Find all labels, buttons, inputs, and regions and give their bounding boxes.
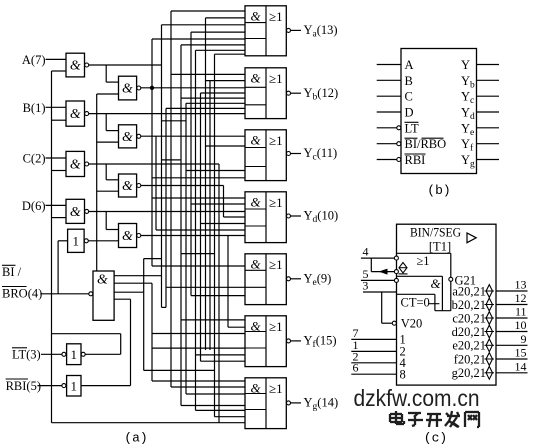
- wire tee down to G2B: [105, 114, 107, 131]
- AND-OR-INVERT gate Gf: [245, 316, 286, 367]
- wire bus vertical x=191: [190, 32, 192, 296]
- arrowhead left (RBO direction): [379, 269, 388, 275]
- wire input Gd y=230: [156, 229, 245, 231]
- svg-text:≥1: ≥1: [269, 381, 283, 396]
- wire input Gf y=348.1: [152, 347, 245, 349]
- bubble LT in: [62, 352, 66, 356]
- wire RBO stair 4: [114, 298, 130, 300]
- buffer 1 (RBI): [67, 376, 81, 397]
- wire G1B out to gate Gb: [89, 113, 245, 115]
- NAND gate G2B: [119, 125, 137, 148]
- svg-text:BI /: BI /: [2, 265, 22, 279]
- pin A: [377, 64, 401, 66]
- wire G1C out: [89, 163, 219, 165]
- wire G1A out: [89, 64, 162, 66]
- pin Yb out: [477, 79, 500, 81]
- wire input Gf y=327.2: [228, 326, 245, 328]
- svg-text:≥1: ≥1: [269, 71, 283, 86]
- wire bottom rail to G-g input: [52, 422, 246, 424]
- svg-text:&: &: [122, 130, 133, 145]
- svg-text:LT: LT: [405, 121, 419, 135]
- amplifier triangle: [467, 233, 476, 243]
- wire to V20: [382, 322, 393, 324]
- wire bus vertical x=186: [185, 103, 187, 394]
- wire bus vertical x=205.5: [205, 18, 207, 350]
- wire stub to G2C pin2: [97, 190, 119, 192]
- wire output Gg: [291, 402, 301, 404]
- wire bus vertical x=200.5: [200, 93, 202, 361]
- wire input Gg y=405.5: [181, 405, 245, 407]
- AND-OR-INVERT gate Ga: [245, 6, 286, 56]
- wire RBO stair 3: [114, 291, 144, 293]
- svg-text:b20,21: b20,21: [452, 298, 486, 312]
- NAND gate G1C: [66, 151, 85, 176]
- svg-text:D: D: [405, 106, 414, 120]
- svg-text:B: B: [405, 74, 413, 88]
- pin 13 wire: [496, 290, 528, 292]
- pin Ya out: [477, 64, 500, 66]
- pin 10 wire: [496, 331, 528, 333]
- svg-text:14: 14: [515, 359, 527, 373]
- inner box CT top: [397, 293, 435, 295]
- wire input Gd y=204: [191, 203, 245, 205]
- wire bus vertical x=171: [170, 11, 172, 387]
- pin 6 wire: [351, 373, 396, 375]
- wire RBI-net vertical: [130, 299, 132, 385]
- wire stub to G1C pin2: [52, 170, 67, 172]
- inner box AND top: [397, 275, 443, 277]
- wire BI branch vertical: [57, 241, 59, 294]
- pin 7 wire: [351, 338, 396, 340]
- svg-text:&: &: [70, 205, 81, 220]
- pin 4 wire: [361, 257, 394, 259]
- wire G1D out to gate Gd: [89, 211, 245, 213]
- wire RBO stair 2: [114, 282, 152, 284]
- svg-text:dzkfw.com.cn: dzkfw.com.cn: [354, 385, 480, 411]
- wire jog C-net: [162, 159, 182, 161]
- svg-text:RBI(5): RBI(5): [6, 379, 41, 393]
- svg-text:RBI: RBI: [405, 153, 426, 167]
- svg-text:A: A: [405, 58, 414, 72]
- svg-text:≥1: ≥1: [269, 257, 283, 272]
- bubble LT out: [81, 352, 85, 356]
- pin BI/RBO: [377, 143, 397, 145]
- svg-text:e20,21: e20,21: [452, 339, 486, 353]
- pin RBI: [377, 159, 397, 161]
- svg-text:≥1: ≥1: [416, 254, 429, 268]
- wire A input: [46, 58, 67, 60]
- CT=0 output line: [428, 303, 439, 305]
- pin 3 branch down: [381, 292, 383, 323]
- wire input Gb y=93: [201, 92, 246, 94]
- wire CT vertical: [434, 294, 436, 310]
- wire input Gf y=319.9: [181, 319, 245, 321]
- wire input Gd y=217: [224, 216, 246, 218]
- wire buffer1 out to G2D: [89, 240, 119, 242]
- svg-text:9: 9: [521, 332, 527, 346]
- wire tee down to G2D: [105, 212, 107, 230]
- svg-text:≥1: ≥1: [269, 195, 283, 210]
- junction dot: [150, 86, 154, 90]
- open-collector diamond (RBO): [399, 263, 407, 273]
- wire G2C out: [141, 185, 224, 187]
- svg-text:f20,21: f20,21: [454, 352, 486, 366]
- wire input Gf y=361.2: [201, 360, 246, 362]
- wire bus vertical x=152: [151, 283, 153, 381]
- svg-text:BIN/7SEG: BIN/7SEG: [410, 225, 461, 239]
- wire input Gg y=416.7: [215, 416, 246, 418]
- wire input Ge y=295.6: [191, 295, 245, 297]
- pin D: [377, 111, 401, 113]
- pin 1 wire: [351, 350, 396, 352]
- svg-text:≥1: ≥1: [269, 133, 283, 148]
- svg-text:a20,21: a20,21: [452, 284, 486, 298]
- wire input Gb y=74.4: [171, 73, 245, 75]
- NAND gate G2A: [119, 76, 137, 100]
- svg-text:&: &: [70, 59, 81, 74]
- wire jog: [144, 258, 162, 260]
- svg-text:12: 12: [515, 291, 527, 305]
- svg-text:&: &: [430, 276, 441, 291]
- wire output Ga: [291, 29, 301, 31]
- wire bus vertical x=166: [165, 108, 167, 307]
- wire input Gc y=170.5: [186, 170, 245, 172]
- wire input Gg y=394: [186, 393, 245, 395]
- wire LT input: [41, 353, 62, 355]
- svg-text:g20,21: g20,21: [452, 366, 486, 380]
- svg-text:BRO(4): BRO(4): [2, 286, 42, 300]
- wire input Ge y=266: [152, 265, 245, 267]
- wire input Gb y=80.6: [206, 80, 246, 82]
- svg-text:&: &: [70, 158, 81, 173]
- wire C input: [46, 157, 67, 159]
- IEC symbol main box U1: [397, 224, 497, 385]
- pin Yf out: [477, 143, 500, 145]
- pin Yd out: [477, 111, 500, 113]
- pin Yc out: [477, 95, 500, 97]
- wire LT-net horizontal: [52, 333, 121, 335]
- svg-text:11: 11: [515, 305, 527, 319]
- svg-text:(c): (c): [424, 431, 447, 446]
- pin LT: [377, 127, 397, 129]
- svg-text:&: &: [97, 273, 108, 288]
- AND-OR-INVERT gate Ge: [245, 254, 286, 305]
- pin 4 branch down: [370, 258, 372, 272]
- svg-text:≥1: ≥1: [269, 319, 283, 334]
- wire stub to G2A pin2: [97, 93, 119, 95]
- svg-text:&: &: [250, 380, 261, 395]
- wire LT-net vertical x=51.5: [51, 71, 53, 423]
- wire input Ga y=54.2: [215, 53, 246, 55]
- svg-text:&: &: [250, 256, 261, 271]
- wire input Gg y=410.4: [196, 409, 246, 411]
- bubble RBI in: [62, 384, 66, 388]
- buffer 1 (BI branch): [68, 229, 85, 252]
- wire B input: [46, 106, 67, 108]
- svg-text:&: &: [250, 318, 261, 333]
- svg-text:BI/RBO: BI/RBO: [405, 137, 447, 151]
- wire stub to G2B pin2: [97, 141, 119, 143]
- svg-text:6: 6: [353, 361, 359, 375]
- wire G2B out to gate Gc: [141, 135, 245, 137]
- wire jog B-net: [162, 120, 187, 122]
- wire input Gc y=146: [206, 145, 246, 147]
- bubble G21: [449, 277, 453, 281]
- svg-text:[T1]: [T1]: [429, 240, 451, 254]
- NAND gate G1A: [66, 53, 85, 77]
- RBO wire with arrow: [371, 271, 394, 273]
- block symbol box: [401, 49, 477, 174]
- AND-OR-INVERT gate Gc: [245, 130, 286, 181]
- wire input Ga y=39: [152, 38, 245, 40]
- pin 14 wire: [496, 372, 528, 374]
- pin 15 wire: [496, 358, 528, 360]
- svg-text:&: &: [122, 82, 133, 97]
- wire input Gg y=387: [171, 386, 245, 388]
- wire input Gg y=381: [152, 380, 245, 382]
- wire stub to G1B pin2: [52, 119, 67, 121]
- pin Yg out: [477, 159, 500, 161]
- NAND gate G1B: [66, 101, 85, 126]
- wire input Ga y=32.1: [191, 31, 245, 33]
- wire output Gb: [291, 92, 301, 94]
- wire input Gf y=354.9: [196, 354, 246, 356]
- wire RBI input: [38, 385, 62, 387]
- svg-text:&: &: [122, 229, 133, 244]
- svg-text:(a): (a): [124, 431, 147, 446]
- wire buffer1-net vertical x=96.7: [96, 94, 98, 271]
- wire input Gf y=333.5: [152, 333, 245, 335]
- pin 11 wire: [496, 317, 528, 319]
- svg-text:A(7): A(7): [22, 53, 46, 67]
- pin C: [377, 95, 401, 97]
- wire to G21: [450, 282, 452, 311]
- wire input Gd y=223.5: [201, 223, 246, 225]
- pin 2 wire: [351, 362, 396, 364]
- svg-text:3: 3: [362, 279, 368, 293]
- wire tee down to G2A: [105, 65, 107, 82]
- svg-text:1: 1: [71, 347, 78, 362]
- svg-text:C(2): C(2): [23, 152, 46, 166]
- svg-text:10: 10: [515, 318, 527, 332]
- svg-text:13: 13: [515, 278, 527, 292]
- wire RBO stair 1: [114, 275, 161, 277]
- wire D input: [46, 204, 67, 206]
- wire bus vertical x=195.5: [195, 50, 197, 410]
- pin 12 wire: [496, 304, 528, 306]
- svg-text:C: C: [405, 90, 413, 104]
- NAND gate G2D: [119, 224, 137, 248]
- wire stub to G1D pin2: [52, 217, 67, 219]
- wire bus vertical x=228: [227, 236, 229, 328]
- pin B: [377, 79, 401, 81]
- AND-OR-INVERT gate Gg: [245, 378, 286, 429]
- wire input Gb y=103.3: [186, 102, 245, 104]
- wire jog top: [181, 253, 215, 255]
- NAND gate G1D: [66, 199, 85, 223]
- pin 5 wire: [361, 279, 394, 281]
- svg-text:LT(3): LT(3): [12, 348, 41, 362]
- inner box >=1 right edge: [450, 253, 452, 277]
- svg-text:≥1: ≥1: [269, 9, 283, 24]
- svg-text:8: 8: [400, 368, 406, 382]
- wire G2A out to gate Gb: [141, 87, 245, 89]
- wire bus vertical x=223.5: [223, 186, 225, 218]
- svg-text:d20,21: d20,21: [452, 325, 486, 339]
- inner box AND right edge: [441, 276, 443, 310]
- wire LT out: [85, 353, 120, 355]
- wire RBI out: [81, 385, 131, 387]
- pin Ye out: [477, 127, 500, 129]
- watermark CJK 电子开发网 (drawn strokes): [390, 413, 402, 415]
- AND-OR-INVERT gate Gd: [245, 192, 286, 243]
- wire input Ga y=44.9: [181, 44, 245, 46]
- svg-text:D(6): D(6): [22, 199, 46, 213]
- wire input Gb y=108.4: [166, 107, 245, 109]
- wire tee down to G2C: [105, 164, 107, 180]
- wire input Gb y=98.1: [181, 97, 245, 99]
- svg-text:c20,21: c20,21: [452, 311, 486, 325]
- wire stub to G1A pin2: [52, 70, 67, 72]
- wire input Ga y=11: [171, 10, 245, 12]
- wire Z-chain horizontal: [144, 369, 215, 371]
- wire BI to buffer1: [58, 240, 68, 242]
- wire bus vertical x=161.5: [161, 25, 163, 308]
- wire output Gd: [291, 215, 301, 217]
- wire stub vertical: [143, 259, 145, 293]
- pin 3 wire: [363, 291, 397, 293]
- svg-text:V20: V20: [401, 317, 423, 331]
- svg-text:&: &: [70, 107, 81, 122]
- AND-OR-INVERT gate Gb: [245, 68, 286, 119]
- inner box >=1 top: [397, 252, 451, 254]
- svg-text:Y: Y: [461, 58, 470, 72]
- NAND gate G2C: [119, 174, 137, 197]
- svg-text:&: &: [250, 194, 261, 209]
- svg-text:15: 15: [515, 346, 527, 360]
- buffer 1 (LT): [67, 344, 81, 365]
- wire input Ge y=287.3: [166, 286, 245, 288]
- wire BI/BRO input: [40, 293, 88, 295]
- wire jog: [162, 306, 167, 308]
- AND gate G-RBO (tall): [93, 271, 114, 320]
- wire bus vertical x=152: [151, 39, 153, 266]
- wire bus vertical x=210: [209, 81, 211, 350]
- wire input Gc y=177.8: [152, 177, 245, 179]
- wire CT bottom loop: [435, 310, 451, 312]
- wire bus vertical x=219: [218, 164, 220, 423]
- svg-text:&: &: [250, 132, 261, 147]
- svg-text:1: 1: [71, 378, 78, 393]
- wire input Ga y=24.8: [162, 24, 246, 26]
- pin 9 wire: [496, 344, 528, 346]
- wire input Ga y=50.3: [196, 49, 246, 51]
- svg-text:B(1): B(1): [23, 101, 46, 115]
- wire bus vertical x=156: [155, 136, 157, 230]
- svg-text:&: &: [122, 179, 133, 194]
- wire input Ga y=17.9: [206, 17, 246, 19]
- svg-text:&: &: [250, 70, 261, 85]
- wire G2D out to gate Gd: [141, 235, 245, 237]
- svg-text:(b): (b): [427, 183, 450, 198]
- wire bus vertical x=214.5: [214, 54, 216, 417]
- svg-text:CT=0: CT=0: [401, 296, 430, 310]
- wire bus vertical x=181: [180, 45, 182, 406]
- svg-text:4: 4: [363, 245, 369, 259]
- wire output Gc: [291, 153, 301, 155]
- svg-text:&: &: [250, 8, 261, 23]
- svg-text:1: 1: [73, 233, 80, 248]
- wire output Ge: [291, 278, 301, 280]
- wire output Gf: [291, 340, 301, 342]
- wire input Gd y=198: [152, 197, 245, 199]
